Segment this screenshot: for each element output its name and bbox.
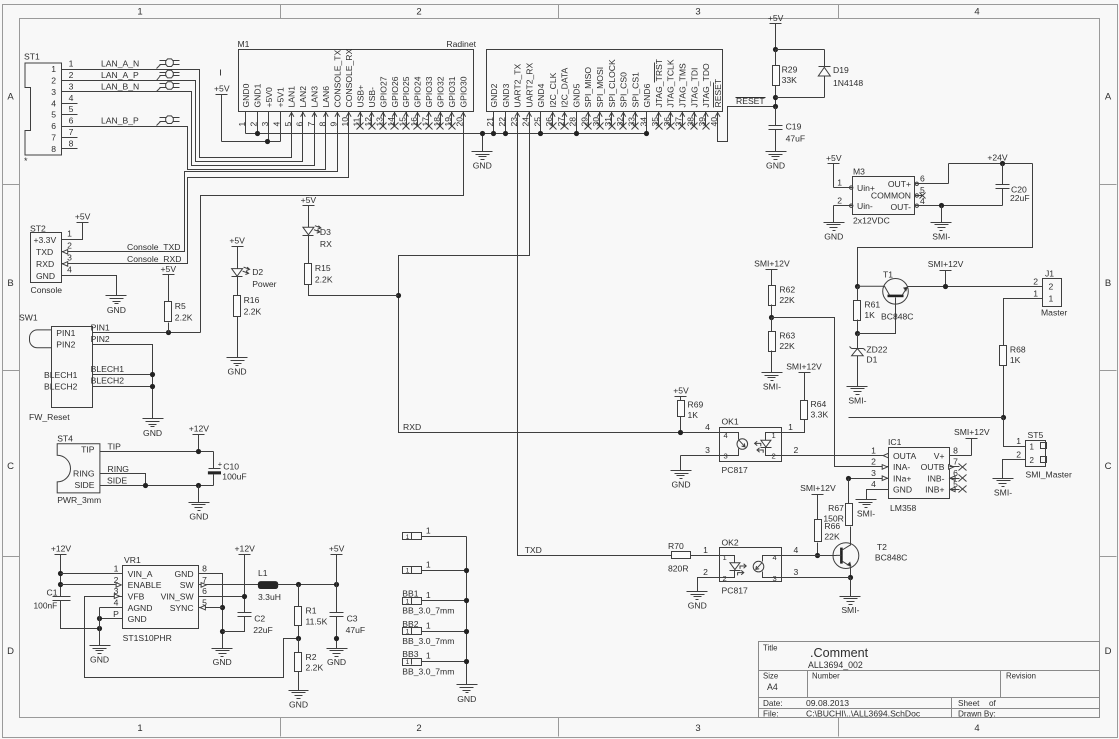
svg-text:+5V1: +5V1 bbox=[275, 87, 285, 108]
ST1 pin stubs bbox=[62, 69, 78, 71]
power SMI+12V at R64 bbox=[799, 372, 811, 374]
wire AGND pin4 bbox=[100, 607, 123, 609]
svg-text:6: 6 bbox=[294, 122, 304, 127]
node R1/R2 feedback bbox=[296, 636, 301, 641]
IC1 pin3 stub bbox=[849, 478, 889, 480]
svg-text:L1: L1 bbox=[258, 568, 268, 578]
svg-text:GND: GND bbox=[107, 305, 126, 315]
svg-text:D: D bbox=[1105, 646, 1112, 657]
svg-text:2: 2 bbox=[703, 567, 708, 577]
+5V supply top right bbox=[770, 23, 782, 25]
svg-text:Number: Number bbox=[812, 672, 840, 681]
IC1 pin5 nc bbox=[950, 489, 960, 491]
svg-text:2: 2 bbox=[416, 7, 421, 18]
svg-text:+5V: +5V bbox=[214, 83, 230, 93]
+5V supply at C3 bbox=[331, 554, 343, 556]
svg-text:.Comment: .Comment bbox=[810, 646, 869, 660]
svg-text:+5V: +5V bbox=[229, 235, 245, 245]
svg-text:GND3: GND3 bbox=[501, 83, 511, 107]
svg-text:1: 1 bbox=[69, 59, 74, 69]
svg-text:BB_3.0_7mm: BB_3.0_7mm bbox=[402, 666, 454, 676]
node VIN_SW bbox=[199, 596, 245, 598]
OK1 LED bbox=[766, 433, 782, 441]
svg-text:LAN_A_N: LAN_A_N bbox=[101, 59, 139, 69]
node RESET/C19 bbox=[773, 104, 778, 109]
capacitor C20 22uF bbox=[1002, 164, 1004, 185]
wire UART2_RX to RXD bbox=[399, 112, 720, 433]
inductor L1 3.3uH bbox=[258, 582, 277, 589]
wire OK1 pin2 to IC1 OUTA bbox=[782, 455, 889, 457]
svg-text:6: 6 bbox=[69, 116, 74, 126]
svg-text:7: 7 bbox=[953, 457, 958, 467]
connector BB1 bbox=[403, 598, 422, 605]
svg-text:22K: 22K bbox=[824, 532, 840, 542]
svg-text:4: 4 bbox=[705, 422, 710, 432]
svg-text:GND: GND bbox=[671, 480, 690, 490]
svg-text:BB_3.0_7mm: BB_3.0_7mm bbox=[402, 606, 454, 616]
node ENABLE bbox=[58, 582, 63, 587]
power SMI+12V at T1 bbox=[940, 270, 952, 272]
svg-text:2: 2 bbox=[837, 195, 842, 205]
resistor R69 1K bbox=[678, 401, 685, 417]
svg-text:1: 1 bbox=[426, 651, 431, 661]
svg-text:+5V: +5V bbox=[673, 385, 689, 395]
connector ST1 bbox=[25, 63, 62, 155]
svg-text:OUTB: OUTB bbox=[921, 462, 945, 472]
svg-text:GND: GND bbox=[457, 694, 476, 704]
svg-text:SYNC: SYNC bbox=[170, 603, 194, 613]
svg-text:LM358: LM358 bbox=[890, 503, 916, 513]
svg-text:+5V: +5V bbox=[826, 153, 842, 163]
resistor R61 1K bbox=[857, 287, 859, 301]
svg-text:*: * bbox=[24, 156, 28, 166]
svg-text:8: 8 bbox=[202, 564, 207, 574]
svg-text:JTAG_TRST: JTAG_TRST bbox=[654, 58, 664, 107]
svg-text:FW_Reset: FW_Reset bbox=[29, 412, 70, 422]
OK2 phototransistor bbox=[753, 561, 764, 572]
svg-text:47uF: 47uF bbox=[346, 625, 366, 635]
diode D19 1N4148 bbox=[824, 50, 826, 67]
svg-text:USB+: USB+ bbox=[355, 85, 365, 108]
svg-text:3.3uH: 3.3uH bbox=[258, 592, 281, 602]
connector BB2 bbox=[403, 628, 422, 635]
node R15/RXD bbox=[396, 293, 401, 298]
svg-text:2: 2 bbox=[1049, 282, 1054, 292]
svg-text:3: 3 bbox=[724, 452, 728, 461]
svg-text:R64: R64 bbox=[811, 399, 827, 409]
svg-text:INA-: INA- bbox=[893, 462, 910, 472]
svg-text:P: P bbox=[113, 609, 119, 619]
svg-text:Drawn By:: Drawn By: bbox=[958, 709, 996, 718]
node R61/ZD22/T1 base bbox=[855, 331, 860, 336]
ground under R2 bbox=[289, 690, 309, 692]
svg-text:2: 2 bbox=[69, 70, 74, 80]
overline JTAG_TRST bbox=[654, 63, 656, 83]
svg-text:GND: GND bbox=[36, 271, 55, 281]
svg-text:7: 7 bbox=[306, 122, 316, 127]
ground SMI- under T2 bbox=[840, 596, 861, 598]
svg-text:GND2: GND2 bbox=[489, 83, 499, 107]
svg-text:SPI_MOSI: SPI_MOSI bbox=[595, 67, 605, 108]
resistor R15 2.2K bbox=[305, 264, 312, 285]
svg-text:D1: D1 bbox=[866, 355, 877, 365]
svg-text:2.2K: 2.2K bbox=[244, 307, 262, 317]
svg-text:GND: GND bbox=[90, 655, 109, 665]
wire R15 to RXD bbox=[309, 285, 399, 296]
svg-text:GND6: GND6 bbox=[642, 83, 652, 107]
svg-text:RXD: RXD bbox=[36, 259, 54, 269]
svg-text:I2C_DATA: I2C_DATA bbox=[560, 67, 570, 107]
resistor R5 2.2K bbox=[165, 302, 172, 322]
overline RESET pin 40 bbox=[713, 83, 715, 108]
svg-text:2: 2 bbox=[114, 575, 119, 585]
svg-text:Console: Console bbox=[31, 285, 63, 295]
svg-text:1: 1 bbox=[426, 590, 431, 600]
svg-text:Console_RXD: Console_RXD bbox=[127, 254, 181, 264]
svg-text:4: 4 bbox=[51, 98, 56, 108]
svg-text:SW1: SW1 bbox=[19, 313, 38, 323]
M1 ground rail bbox=[246, 133, 647, 135]
svg-text:Size: Size bbox=[763, 672, 778, 681]
svg-text:1: 1 bbox=[67, 228, 72, 238]
svg-text:TIP: TIP bbox=[81, 445, 95, 455]
resistor R16 2.2K bbox=[234, 296, 241, 317]
svg-text:C10: C10 bbox=[223, 461, 239, 471]
power SMI+12V at IC1 V+ bbox=[950, 455, 972, 457]
node AGND rail bbox=[97, 626, 102, 631]
svg-text:LAN3: LAN3 bbox=[310, 86, 320, 108]
svg-text:8: 8 bbox=[69, 138, 74, 148]
svg-text:1: 1 bbox=[788, 422, 793, 432]
svg-text:ZD22: ZD22 bbox=[866, 344, 887, 354]
svg-text:4: 4 bbox=[794, 545, 799, 555]
svg-text:22uF: 22uF bbox=[253, 625, 273, 635]
capacitor C19 47uF bbox=[775, 107, 777, 126]
svg-text:TXD: TXD bbox=[36, 247, 53, 257]
svg-text:M3: M3 bbox=[853, 166, 865, 176]
svg-text:BLECH2: BLECH2 bbox=[91, 376, 125, 386]
wire M3 pin1 bbox=[834, 187, 853, 189]
wire VFB feedback bbox=[85, 597, 299, 678]
svg-text:SMI+12V: SMI+12V bbox=[954, 427, 990, 437]
svg-text:R16: R16 bbox=[244, 295, 260, 305]
ground under C19 bbox=[766, 151, 787, 153]
svg-text:IC1: IC1 bbox=[888, 437, 902, 447]
transistor T2 BC848C bbox=[850, 527, 852, 546]
svg-text:1: 1 bbox=[1016, 436, 1021, 446]
svg-text:BB2: BB2 bbox=[402, 619, 418, 629]
svg-text:RXD: RXD bbox=[403, 422, 421, 432]
svg-text:JTAG_TCLK: JTAG_TCLK bbox=[666, 59, 676, 107]
svg-text:GND: GND bbox=[189, 511, 208, 521]
wire OK2 pin3 to T2 emitter bbox=[782, 577, 851, 579]
+5V supply at D3 bbox=[303, 205, 315, 207]
svg-text:2.2K: 2.2K bbox=[306, 663, 324, 673]
svg-text:T2: T2 bbox=[877, 542, 887, 552]
wire VR1 pin5 SYNC bbox=[199, 607, 223, 609]
svg-text:D3: D3 bbox=[320, 227, 331, 237]
svg-text:RING: RING bbox=[73, 469, 95, 479]
capacitor C3 47uF bbox=[336, 585, 338, 613]
svg-text:3: 3 bbox=[695, 7, 700, 18]
svg-text:3: 3 bbox=[69, 81, 74, 91]
svg-text:A: A bbox=[7, 92, 14, 103]
svg-text:SPI_CLOCK: SPI_CLOCK bbox=[607, 59, 617, 108]
svg-text:8: 8 bbox=[317, 122, 327, 127]
svg-text:4: 4 bbox=[69, 93, 74, 103]
resistor R64 3.3K bbox=[801, 401, 808, 420]
wire LAN_B_N bbox=[62, 92, 315, 166]
svg-text:BB3: BB3 bbox=[402, 649, 418, 659]
svg-text:+24V: +24V bbox=[987, 153, 1008, 163]
svg-text:VIN_A: VIN_A bbox=[128, 569, 153, 579]
svg-text:GND4: GND4 bbox=[536, 83, 546, 107]
svg-text:11.5K: 11.5K bbox=[306, 616, 328, 626]
+5V supply at R69 bbox=[675, 396, 687, 398]
+5V supply at R5 bbox=[163, 274, 175, 276]
power SMI+12V at R62 bbox=[766, 269, 778, 271]
svg-text:AGND: AGND bbox=[128, 603, 153, 613]
svg-text:ST1S10PHR: ST1S10PHR bbox=[123, 633, 172, 643]
wire VR1 pin8 GND bbox=[199, 574, 223, 649]
svg-text:22uF: 22uF bbox=[1010, 193, 1030, 203]
svg-text:RX: RX bbox=[320, 239, 332, 249]
wire Console_RXD to M1 CONSOLE_RX bbox=[62, 112, 349, 264]
svg-text:PIN1: PIN1 bbox=[56, 328, 75, 338]
node VIN_A bbox=[58, 571, 63, 576]
svg-text:2: 2 bbox=[772, 452, 776, 461]
svg-text:CONSOLE_TX: CONSOLE_TX bbox=[333, 49, 343, 107]
svg-text:Revision: Revision bbox=[1006, 672, 1036, 681]
svg-text:33K: 33K bbox=[782, 75, 798, 85]
svg-text:1: 1 bbox=[1030, 442, 1035, 451]
svg-text:LAN_B_N: LAN_B_N bbox=[101, 81, 139, 91]
wire R64 to OK1 pin1 bbox=[782, 420, 805, 433]
svg-text:GND: GND bbox=[228, 367, 247, 377]
svg-text:1: 1 bbox=[723, 553, 727, 562]
ground under VR1 AGND bbox=[90, 645, 111, 647]
resistor R29 33K bbox=[775, 50, 777, 66]
svg-text:SIDE: SIDE bbox=[74, 480, 94, 490]
svg-text:INa+: INa+ bbox=[893, 474, 911, 484]
svg-text:ST5: ST5 bbox=[1028, 430, 1044, 440]
ground under SW1 bbox=[143, 418, 164, 420]
svg-text:2: 2 bbox=[51, 76, 56, 86]
svg-text:ALL3694_002: ALL3694_002 bbox=[808, 660, 863, 670]
+5V supply at M3 bbox=[828, 163, 840, 165]
svg-text:B: B bbox=[7, 278, 13, 289]
svg-text:C3: C3 bbox=[347, 613, 358, 623]
wire LAN_A_P bbox=[62, 81, 303, 162]
svg-text:3: 3 bbox=[871, 468, 876, 478]
svg-text:R2: R2 bbox=[306, 652, 317, 662]
svg-text:R5: R5 bbox=[175, 301, 186, 311]
svg-text:GND: GND bbox=[213, 657, 232, 667]
svg-text:+5V: +5V bbox=[75, 211, 91, 221]
svg-text:2.2K: 2.2K bbox=[315, 275, 333, 285]
svg-text:4: 4 bbox=[974, 7, 979, 18]
wire J1 pin1 to R68 bbox=[1004, 299, 1043, 346]
ground SMI- at M3 bbox=[931, 222, 952, 224]
+5V supply at M1 bbox=[216, 94, 228, 96]
svg-text:3: 3 bbox=[773, 574, 777, 583]
svg-text:OK1: OK1 bbox=[722, 417, 739, 427]
svg-text:GND: GND bbox=[824, 231, 843, 241]
LED D2 Power bbox=[232, 269, 243, 277]
svg-text:GND1: GND1 bbox=[252, 83, 262, 107]
ground under BB bus bbox=[457, 684, 478, 686]
svg-text:J1: J1 bbox=[1045, 269, 1054, 279]
svg-text:SPI_MISO: SPI_MISO bbox=[583, 67, 593, 108]
svg-text:6: 6 bbox=[202, 586, 207, 596]
resistor R63 22K bbox=[769, 332, 776, 352]
svg-text:D: D bbox=[7, 646, 14, 657]
wire LAN_B_P bbox=[62, 112, 326, 170]
svg-text:7: 7 bbox=[51, 133, 56, 143]
IC1 pin6 nc bbox=[950, 478, 960, 480]
svg-text:LAN6: LAN6 bbox=[321, 86, 331, 108]
svg-text:Title: Title bbox=[763, 643, 777, 652]
svg-text:5: 5 bbox=[283, 122, 293, 127]
svg-text:2: 2 bbox=[871, 457, 876, 467]
svg-text:UART2_RX: UART2_RX bbox=[524, 62, 534, 107]
svg-text:1: 1 bbox=[837, 177, 842, 187]
op-amp IC1 LM358 bbox=[889, 448, 950, 499]
svg-text:OUT-: OUT- bbox=[890, 202, 911, 212]
svg-text:OK2: OK2 bbox=[722, 537, 739, 547]
svg-text:Power: Power bbox=[252, 279, 276, 289]
svg-text:SMI+12V: SMI+12V bbox=[800, 483, 836, 493]
svg-text:47uF: 47uF bbox=[786, 134, 806, 144]
svg-text:GPIO26: GPIO26 bbox=[390, 76, 400, 107]
svg-text:+12V: +12V bbox=[189, 423, 210, 433]
svg-text:OUTA: OUTA bbox=[893, 451, 917, 461]
optocoupler OK2 PC817 bbox=[720, 548, 782, 582]
svg-text:8: 8 bbox=[51, 144, 56, 154]
svg-text:OUT+: OUT+ bbox=[888, 179, 911, 189]
svg-text:R68: R68 bbox=[1010, 345, 1026, 355]
power SMI+12V at R66 bbox=[812, 494, 824, 496]
svg-text:VFB: VFB bbox=[128, 592, 145, 602]
regulator VR1 ST1S10PHR bbox=[123, 566, 199, 629]
svg-text:29: 29 bbox=[579, 117, 589, 127]
module M3 2x12VDC bbox=[853, 177, 915, 215]
svg-text:PIN2: PIN2 bbox=[56, 340, 75, 350]
wire L1 to +5V node bbox=[278, 584, 337, 586]
tick mark bbox=[220, 70, 222, 76]
svg-text:LAN2: LAN2 bbox=[298, 86, 308, 108]
+12V supply at VR1 bbox=[55, 554, 67, 556]
svg-text:JTAG_TMS: JTAG_TMS bbox=[677, 63, 687, 108]
GND symbol under M1 rail bbox=[482, 134, 484, 152]
svg-text:1: 1 bbox=[406, 659, 410, 666]
svg-text:R69: R69 bbox=[688, 400, 704, 410]
svg-text:2: 2 bbox=[723, 574, 727, 583]
svg-text:GND: GND bbox=[766, 161, 785, 171]
node T1 collector bbox=[855, 284, 860, 289]
svg-text:1K: 1K bbox=[1010, 355, 1021, 365]
svg-text:PIN1: PIN1 bbox=[91, 323, 110, 333]
svg-text:1: 1 bbox=[426, 559, 431, 569]
svg-text:GPIO33: GPIO33 bbox=[424, 76, 434, 107]
svg-text:+5V0: +5V0 bbox=[264, 87, 274, 108]
svg-text:100uF: 100uF bbox=[222, 471, 246, 481]
connector ST5 SMI_Master bbox=[1026, 441, 1046, 467]
svg-text:T1: T1 bbox=[883, 270, 893, 280]
svg-text:1: 1 bbox=[871, 445, 876, 455]
svg-text:8: 8 bbox=[953, 445, 958, 455]
svg-text:SMI-: SMI- bbox=[994, 487, 1012, 497]
zener ZD22 D1 bbox=[857, 334, 859, 349]
svg-text:BLECH1: BLECH1 bbox=[91, 364, 125, 374]
svg-text:1: 1 bbox=[137, 7, 142, 18]
svg-text:4: 4 bbox=[271, 122, 281, 127]
choke on LAN_A_P bbox=[160, 72, 167, 74]
svg-text:RESET: RESET bbox=[713, 78, 723, 107]
svg-text:of: of bbox=[989, 699, 997, 708]
svg-text:V+: V+ bbox=[934, 451, 945, 461]
ground under R16 bbox=[227, 357, 248, 359]
svg-text:USB-: USB- bbox=[367, 87, 377, 108]
svg-text:LAN_B_P: LAN_B_P bbox=[101, 116, 139, 126]
svg-text:1: 1 bbox=[406, 629, 410, 636]
svg-text:TXD: TXD bbox=[525, 545, 542, 555]
ST2 pin2 arrow bbox=[63, 250, 68, 255]
capacitor C10 100uF bbox=[213, 452, 215, 469]
svg-text:2: 2 bbox=[1030, 456, 1035, 465]
svg-text:Radinet: Radinet bbox=[446, 39, 476, 49]
svg-text:ST4: ST4 bbox=[57, 434, 73, 444]
wire GPIO30 to FW reset bbox=[201, 112, 464, 333]
svg-text:PWR_3mm: PWR_3mm bbox=[57, 495, 101, 505]
svg-text:CONSOLE_RX: CONSOLE_RX bbox=[344, 48, 354, 107]
svg-text:BB_3.0_7mm: BB_3.0_7mm bbox=[402, 636, 454, 646]
svg-text:Sheet: Sheet bbox=[958, 699, 980, 708]
svg-text:ST1: ST1 bbox=[24, 52, 40, 62]
choke on LAN_B_N bbox=[160, 83, 167, 85]
optocoupler OK1 PC817 bbox=[720, 428, 782, 462]
svg-text:+5V: +5V bbox=[161, 264, 177, 274]
wire SW to L1 bbox=[199, 584, 259, 586]
LED D3 RX bbox=[303, 227, 314, 235]
svg-text:SIDE: SIDE bbox=[107, 476, 127, 486]
svg-text:+5V: +5V bbox=[329, 543, 345, 553]
svg-text:+3.3V: +3.3V bbox=[34, 235, 57, 245]
svg-text:GND: GND bbox=[893, 485, 912, 495]
wire ST5 pin1 bbox=[1004, 418, 1026, 447]
svg-text:+12V: +12V bbox=[235, 543, 256, 553]
svg-text:R61: R61 bbox=[864, 300, 880, 310]
svg-text:1: 1 bbox=[1049, 294, 1054, 304]
svg-text:1: 1 bbox=[137, 723, 142, 734]
svg-text:LAN1: LAN1 bbox=[287, 86, 297, 108]
svg-text:LAN_A_P: LAN_A_P bbox=[101, 70, 139, 80]
resistor R1 11.5K bbox=[298, 585, 300, 607]
svg-text:3: 3 bbox=[794, 567, 799, 577]
resistor R62 22K bbox=[769, 286, 776, 306]
svg-text:GND: GND bbox=[289, 699, 308, 709]
svg-text:GND: GND bbox=[128, 614, 147, 624]
node R62/R63 bbox=[769, 315, 774, 320]
wire UART2_TX down bbox=[518, 112, 672, 556]
svg-text:SMI+12V: SMI+12V bbox=[754, 259, 790, 269]
svg-text:R67: R67 bbox=[828, 503, 844, 513]
svg-text:6: 6 bbox=[920, 174, 925, 184]
svg-text:GND: GND bbox=[143, 428, 162, 438]
svg-text:4: 4 bbox=[773, 553, 777, 562]
svg-text:R70: R70 bbox=[668, 541, 684, 551]
svg-text:2: 2 bbox=[1016, 450, 1021, 460]
